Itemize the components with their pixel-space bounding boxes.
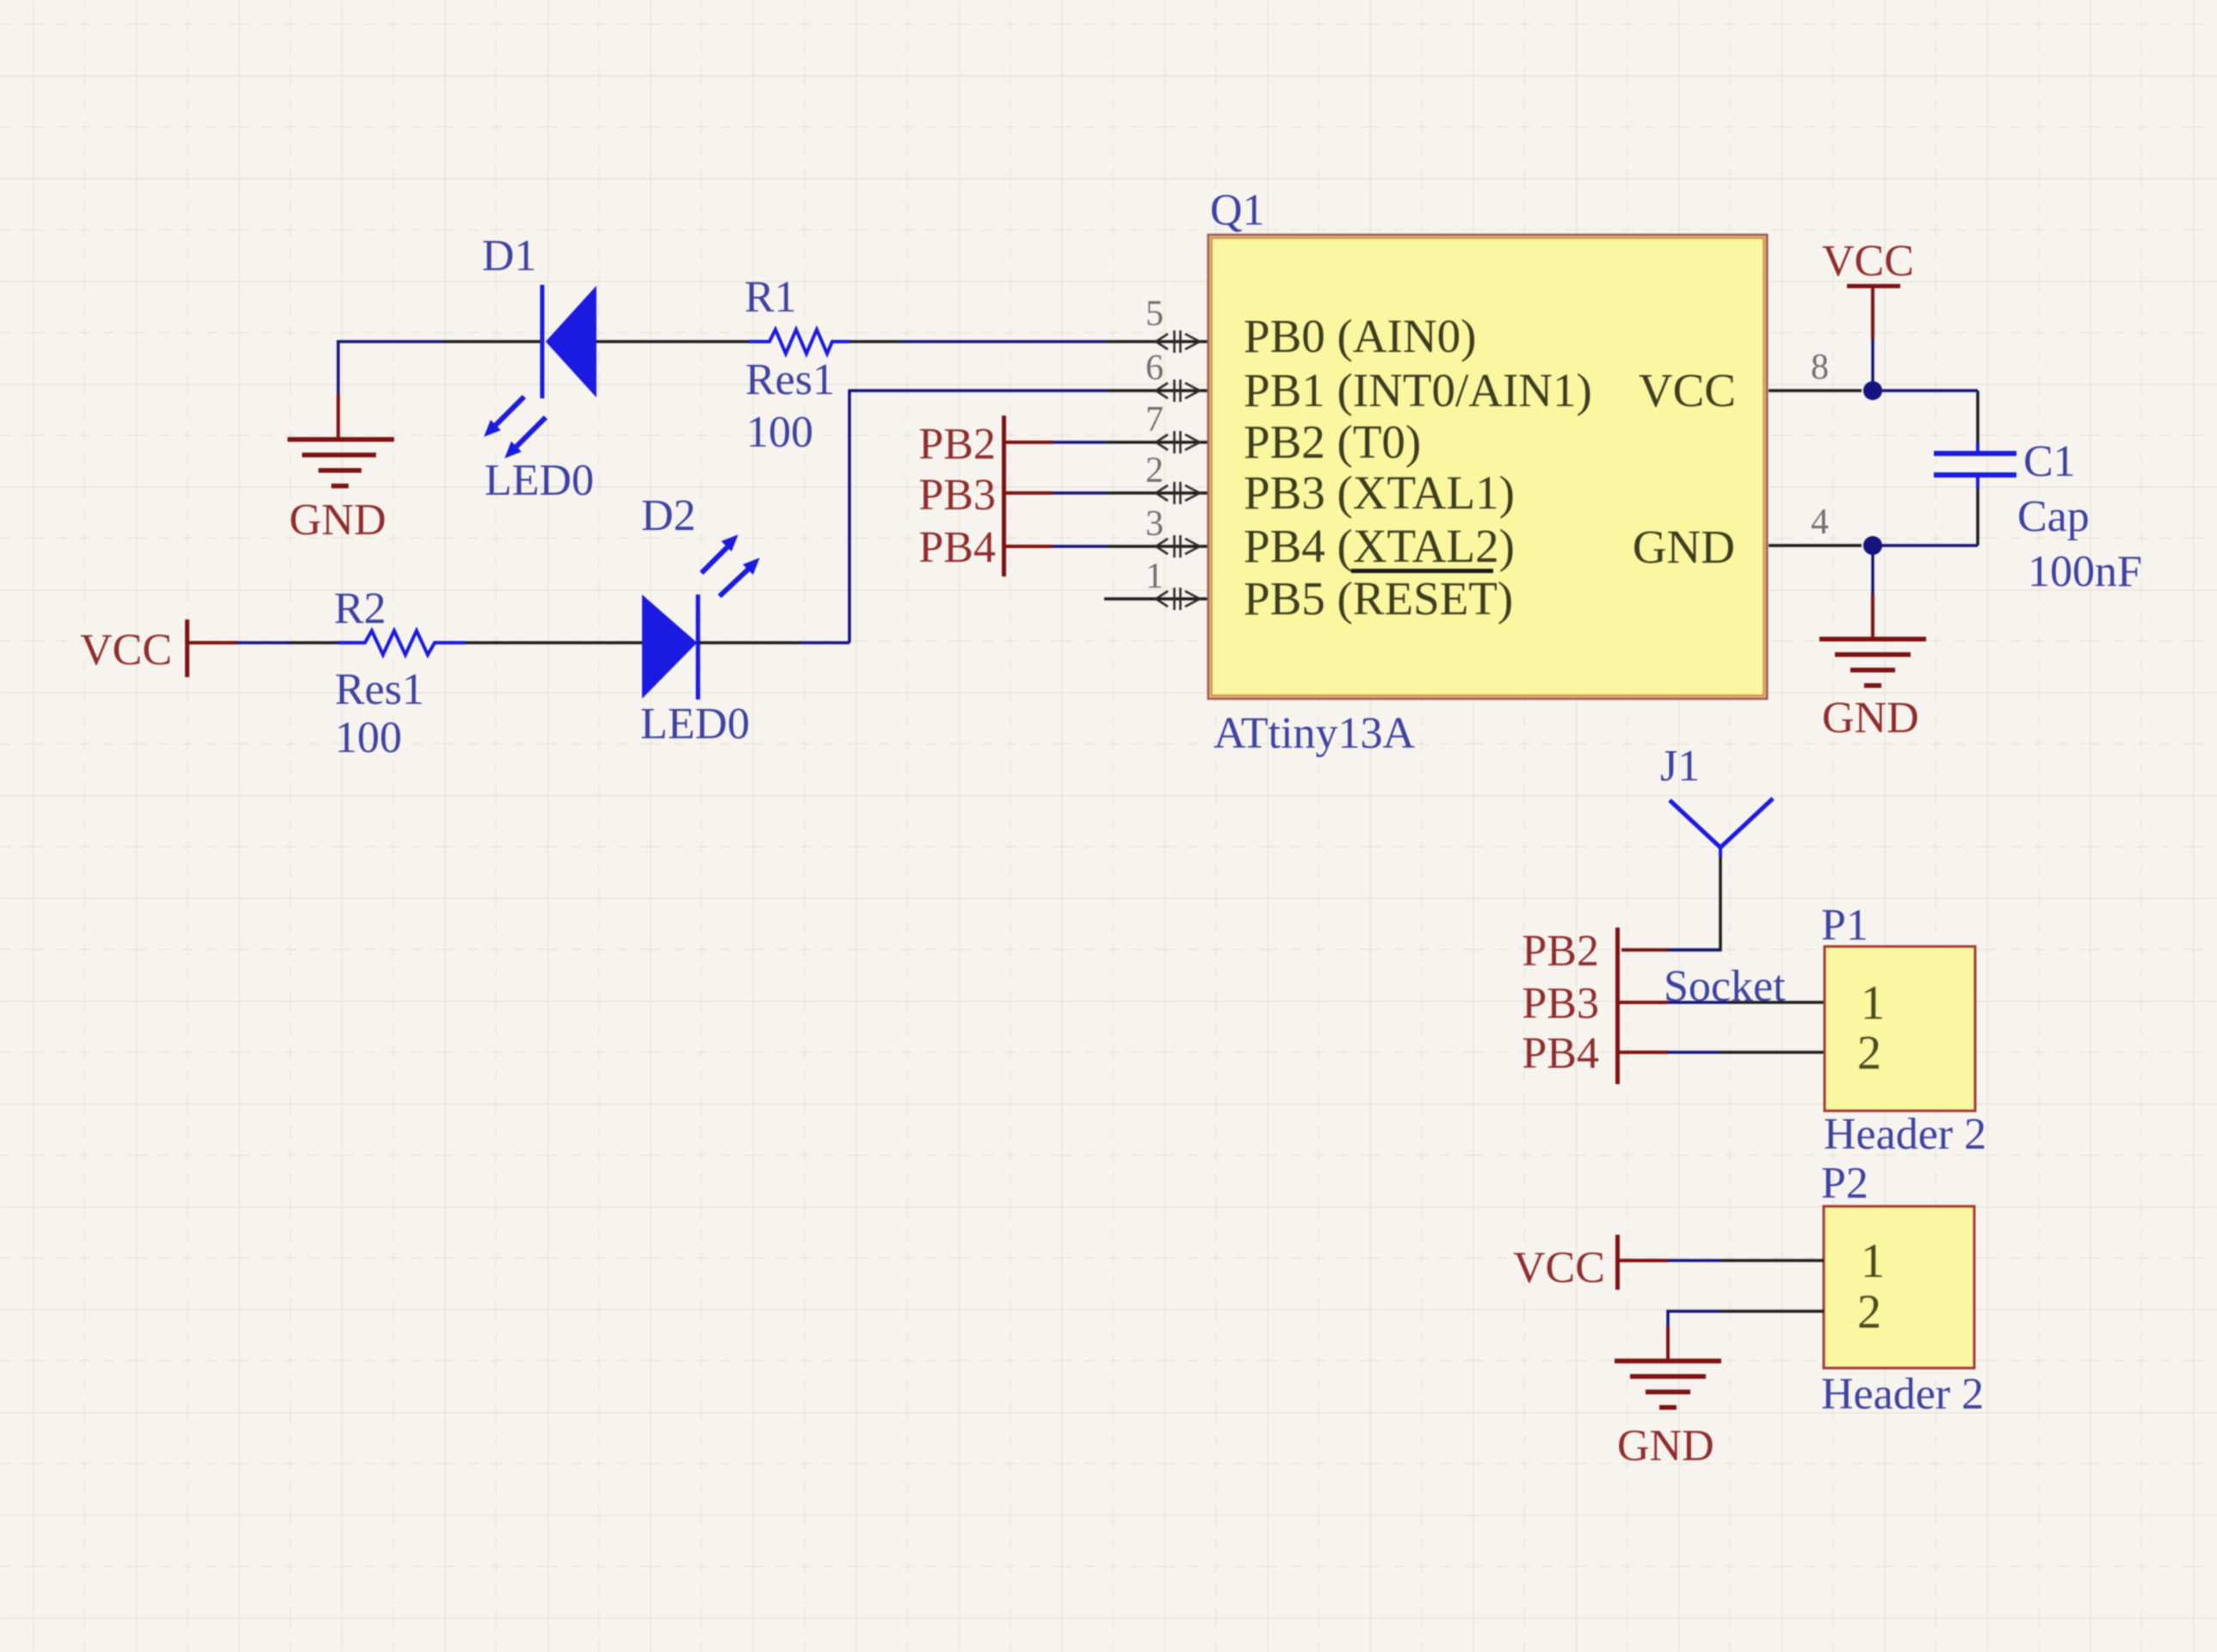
svg-text:3: 3 — [1146, 504, 1164, 544]
wire GND node down — [1871, 546, 1874, 594]
port lead PB2 right — [1621, 948, 1668, 952]
power port GND right stem — [1871, 594, 1874, 638]
svg-text:PB2 (T0): PB2 (T0) — [1244, 416, 1421, 468]
svg-text:PB3: PB3 — [918, 471, 996, 520]
pin glyph 3 — [1156, 535, 1200, 558]
LED arrows D2 — [701, 536, 758, 596]
svg-text:Res1: Res1 — [745, 355, 835, 404]
resistor R1 — [749, 330, 850, 354]
wire D1 to R1 — [596, 340, 749, 343]
wire C1 bottom to GND node — [1873, 544, 1978, 547]
power port VCC P2 — [1615, 1235, 1620, 1290]
svg-text:4: 4 — [1811, 502, 1829, 542]
svg-text:R2: R2 — [334, 584, 386, 633]
svg-text:GND: GND — [1822, 693, 1919, 743]
svg-text:PB0 (AIN0): PB0 (AIN0) — [1244, 310, 1476, 362]
power port GND P2 stem — [1666, 1327, 1670, 1360]
wire to diode D1 — [443, 340, 540, 343]
ground pin stem — [337, 394, 340, 439]
svg-text:VCC: VCC — [1513, 1243, 1605, 1292]
svg-text:8: 8 — [1811, 348, 1829, 387]
svg-text:P2: P2 — [1821, 1159, 1868, 1208]
svg-text:PB3 (XTAL1): PB3 (XTAL1) — [1244, 466, 1515, 519]
svg-text:D2: D2 — [641, 491, 696, 540]
svg-text:D1: D1 — [482, 231, 537, 280]
svg-text:PB1 (INT0/AIN1): PB1 (INT0/AIN1) — [1244, 364, 1592, 416]
wire R1 to pin5 — [850, 340, 901, 343]
pin 5 wire — [1107, 340, 1208, 343]
svg-text:7: 7 — [1146, 400, 1164, 440]
pin 2 wire — [1107, 491, 1208, 495]
svg-text:PB2: PB2 — [1522, 927, 1599, 976]
power port VCC right — [1847, 284, 1900, 288]
svg-text:5: 5 — [1146, 294, 1164, 334]
svg-text:PB4: PB4 — [1522, 1029, 1599, 1078]
IC Q1 body — [1208, 235, 1767, 699]
pin 1 stub wire — [1104, 597, 1208, 601]
svg-text:Socket: Socket — [1664, 962, 1786, 1011]
wire PB3 — [1053, 491, 1107, 495]
wire PB3 to P1 — [1668, 1001, 1728, 1004]
svg-text:J1: J1 — [1660, 742, 1700, 791]
junction VCC node — [1863, 381, 1882, 400]
pin 3 wire — [1107, 545, 1208, 548]
svg-text:100nF: 100nF — [2028, 547, 2142, 596]
pin glyph 6 — [1156, 379, 1200, 402]
capacitor C1 — [1934, 391, 2016, 546]
pin glyph 7 — [1156, 431, 1200, 453]
svg-text:PB5 (RESET): PB5 (RESET) — [1244, 572, 1513, 625]
wire VCC port — [1871, 339, 1874, 384]
LED arrows D1 — [485, 397, 546, 457]
diode D1 — [542, 285, 596, 398]
wire R2 to D2 — [466, 641, 642, 644]
junction GND node — [1863, 536, 1882, 555]
wire J1 to port — [1668, 948, 1720, 952]
svg-text:2: 2 — [1857, 1285, 1881, 1339]
pin glyph 1 — [1156, 588, 1200, 610]
wire PB2 — [1053, 441, 1107, 444]
wire VCC to R2 — [237, 641, 290, 644]
svg-text:ATtiny13A: ATtiny13A — [1213, 709, 1415, 758]
wire D1 net to GND corner — [338, 342, 443, 394]
svg-text:VCC: VCC — [1639, 364, 1736, 416]
pin glyph 2 — [1156, 482, 1200, 504]
pin 6 wire — [1107, 389, 1208, 392]
header P1 body — [1825, 946, 1975, 1111]
svg-text:LED0: LED0 — [640, 700, 750, 749]
svg-text:GND: GND — [1633, 521, 1735, 573]
wire PB4 — [1053, 545, 1107, 548]
svg-text:1: 1 — [1861, 977, 1885, 1030]
svg-text:6: 6 — [1146, 348, 1164, 388]
pin glyph 5 — [1156, 330, 1200, 353]
wire VCC to P1 pin1 — [1668, 1259, 1721, 1262]
svg-text:GND: GND — [1617, 1421, 1714, 1470]
svg-text:C1: C1 — [2023, 437, 2076, 486]
wire J1 stem — [1668, 857, 1720, 950]
wire VCC node to C1 — [1873, 389, 1978, 392]
wire P2 pin2 to GND — [1720, 1310, 1824, 1313]
svg-text:2: 2 — [1146, 451, 1164, 490]
svg-text:LED0: LED0 — [485, 456, 594, 505]
antenna J1 — [1670, 798, 1773, 857]
svg-text:1: 1 — [1146, 557, 1164, 596]
ground GND symbol P2 — [1615, 1359, 1721, 1410]
port bar PB2/PB3/PB4 left — [1002, 416, 1006, 576]
svg-text:R1: R1 — [744, 273, 797, 322]
svg-text:GND: GND — [289, 496, 386, 545]
svg-text:VCC: VCC — [80, 626, 172, 675]
svg-text:PB4: PB4 — [918, 523, 996, 572]
svg-text:P1: P1 — [1821, 901, 1868, 950]
wire net PB1 vertical — [849, 391, 1107, 643]
pin 7 wire — [1107, 441, 1208, 444]
svg-text:Q1: Q1 — [1210, 186, 1265, 235]
header P2 body — [1824, 1206, 1974, 1368]
overline RESET — [1351, 569, 1493, 573]
svg-text:1: 1 — [1861, 1235, 1885, 1288]
power port VCC left — [185, 619, 237, 677]
svg-text:Header 2: Header 2 — [1824, 1110, 1986, 1159]
diode D2 — [642, 595, 698, 700]
wire D2 to PB1 net — [699, 641, 801, 644]
svg-text:Header 2: Header 2 — [1821, 1370, 1984, 1419]
resistor R2 — [338, 631, 466, 655]
svg-text:2: 2 — [1857, 1026, 1881, 1080]
svg-text:100: 100 — [746, 408, 813, 457]
svg-text:PB3: PB3 — [1522, 979, 1599, 1028]
svg-text:Res1: Res1 — [335, 665, 424, 714]
svg-text:Cap: Cap — [2017, 492, 2090, 541]
ground GND symbol right — [1819, 637, 1926, 688]
pin 8 wire — [1769, 389, 1862, 392]
wire net PB0 — [901, 340, 1107, 343]
ground GND symbol left — [287, 437, 394, 489]
svg-text:PB2: PB2 — [918, 420, 996, 469]
port bar PB2/PB3/PB4 right — [1615, 928, 1620, 1084]
svg-text:100: 100 — [335, 713, 402, 762]
svg-text:PB4 (XTAL2): PB4 (XTAL2) — [1244, 520, 1515, 572]
svg-text:VCC: VCC — [1822, 237, 1914, 286]
wire PB4 to P1 — [1668, 1051, 1720, 1054]
pin 4 wire — [1769, 544, 1862, 547]
